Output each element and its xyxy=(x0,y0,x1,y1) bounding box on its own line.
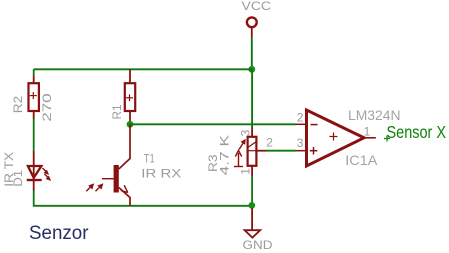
svg-text:1: 1 xyxy=(239,168,253,175)
svg-text:R2: R2 xyxy=(11,96,25,114)
svg-text:GND: GND xyxy=(243,238,273,252)
wire R3 bottom to bus xyxy=(251,176,253,206)
svg-text:T1: T1 xyxy=(144,151,155,165)
wire R3 wiper to op-amp pin 3 xyxy=(267,150,297,152)
transistor T1 (photo NPN) xyxy=(102,124,130,206)
svg-text:Sensor X: Sensor X xyxy=(387,122,447,142)
node junction R1 bottom xyxy=(127,121,134,128)
LED D1 emission arrows xyxy=(43,168,51,181)
resistor R2 xyxy=(29,76,39,120)
svg-text:3: 3 xyxy=(238,129,252,136)
svg-text:R1: R1 xyxy=(110,104,124,119)
node junction GND xyxy=(248,202,255,209)
wire VCC column to R3 xyxy=(251,69,253,127)
svg-text:VCC: VCC xyxy=(242,1,272,13)
op-amp IC1A xyxy=(296,110,376,166)
supply symbol VCC xyxy=(247,17,257,37)
node junction top bus/VCC xyxy=(248,66,255,73)
svg-text:3: 3 xyxy=(297,136,304,150)
svg-text:270: 270 xyxy=(40,93,54,122)
R3 adjust arrow diagonal xyxy=(239,139,246,149)
wire R1 junction to op-amp pin 2 xyxy=(130,123,296,125)
trimmer R3 xyxy=(248,128,267,177)
svg-text:2: 2 xyxy=(266,135,273,149)
R3 wiper arrow vertical xyxy=(234,151,243,167)
svg-text:D1: D1 xyxy=(11,170,25,187)
wire R2 to D1 xyxy=(33,119,35,151)
svg-text:4.7 K: 4.7 K xyxy=(218,134,232,176)
wire VCC to top bus xyxy=(251,37,253,69)
svg-text:LM324N: LM324N xyxy=(348,107,401,123)
wire R2 top xyxy=(33,69,35,75)
LED D1 xyxy=(27,151,42,191)
wire top bus horizontal xyxy=(34,68,252,70)
svg-text:IC1A: IC1A xyxy=(345,152,378,168)
svg-text:IR RX: IR RX xyxy=(141,166,181,180)
ground symbol GND xyxy=(245,208,261,238)
svg-text:2: 2 xyxy=(297,111,304,125)
svg-text:Senzor: Senzor xyxy=(29,222,89,244)
net label Sensor X xyxy=(384,122,446,142)
svg-text:1: 1 xyxy=(364,124,371,138)
T1 photo arrows xyxy=(86,184,103,192)
wire D1 to bottom bus xyxy=(34,191,252,206)
resistor R1 xyxy=(125,69,135,124)
